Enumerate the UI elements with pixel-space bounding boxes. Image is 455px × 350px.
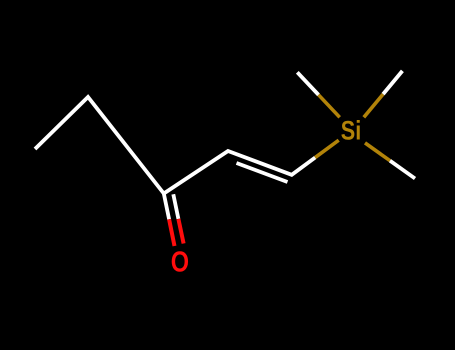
bond C2=C1 vinyl double bond inner line — [237, 163, 288, 182]
bond C3=O carbonyl double bond, carbon half (white) main line — [164, 194, 169, 220]
svg-text:O: O — [171, 247, 189, 279]
bonds C3-C2, C2=C1 main line, and C1-Si carbon half (enone chain toward Si) — [164, 151, 315, 194]
bond Si-CH3 lower-right, carbon half (white) — [390, 161, 415, 179]
bond Si-CH3 upper-left, silicon half (olive) — [319, 95, 340, 118]
bond Si-CH3 upper-right, carbon half (white) — [383, 71, 402, 94]
bond C1-Si, silicon half (olive) — [315, 140, 339, 157]
bond C3=O inner parallel line, oxygen half (red) — [178, 219, 183, 244]
bond Si-CH3 lower-right, silicon half (olive) — [365, 143, 390, 161]
bond Si-CH3 upper-left, carbon half (white) — [297, 72, 318, 95]
chain bonds C6-C5, C5-C4, C4-C3 (ethyl arm down to carbonyl carbon C3) — [35, 97, 164, 194]
bond C3=O carbonyl double bond, oxygen half (red) main line — [169, 219, 174, 246]
bond Si-CH3 upper-right, silicon half (olive) — [364, 94, 383, 117]
bond C3=O inner parallel line, carbon half (white) — [173, 194, 178, 219]
svg-text:Si: Si — [341, 115, 362, 145]
